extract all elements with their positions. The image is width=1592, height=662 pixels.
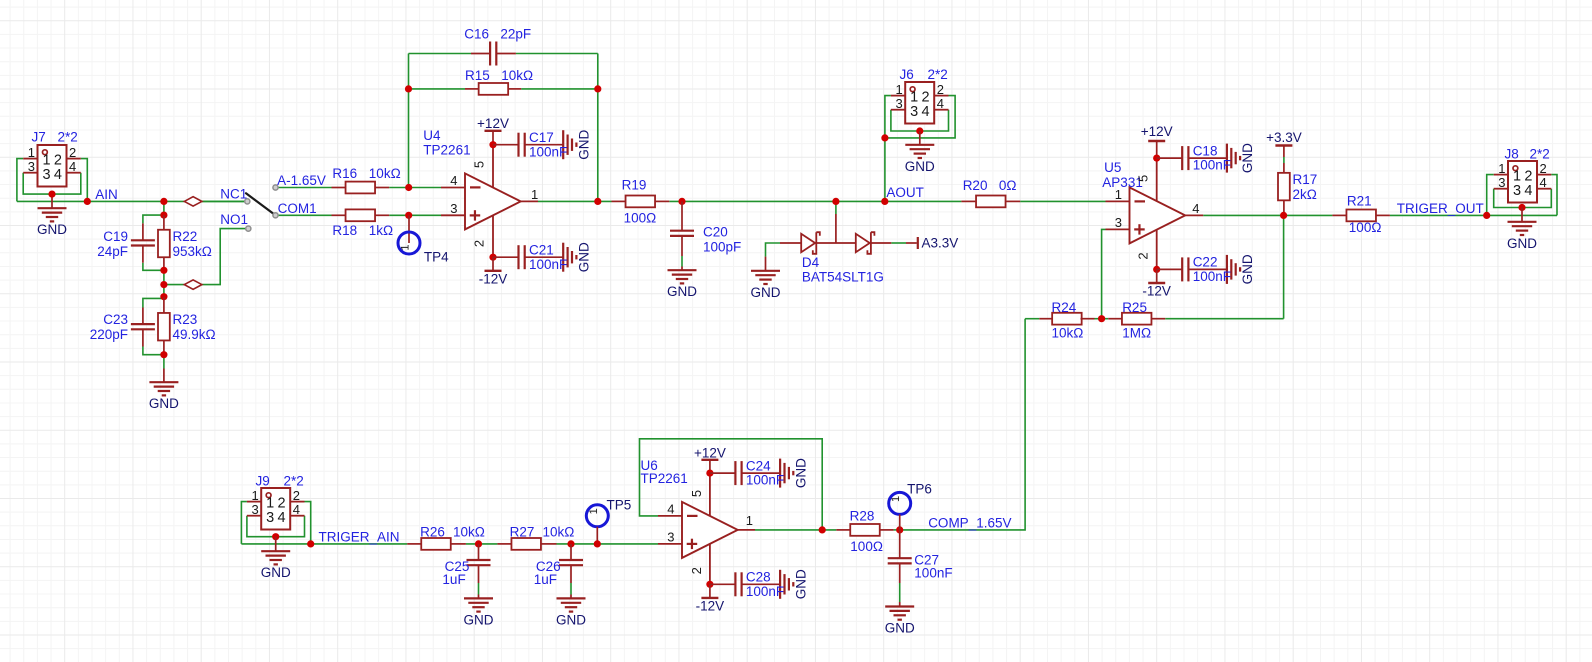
ground C20: [681, 267, 683, 271]
junction dot J6 gnd: [916, 127, 923, 134]
svg-text:R15: R15: [465, 68, 490, 83]
junction dot AIN at J7: [84, 198, 91, 205]
resistor R16: [332, 187, 346, 189]
svg-text:24pF: 24pF: [97, 244, 128, 259]
svg-text:4: 4: [450, 173, 457, 188]
wire R28 to COMP node: [894, 529, 900, 531]
pin end COM1: [273, 213, 278, 218]
junction dot R15 right: [594, 85, 601, 92]
svg-text:GND: GND: [793, 458, 808, 488]
svg-text:GND: GND: [667, 284, 697, 299]
op-amp U6: [682, 502, 738, 558]
svg-text:2*2: 2*2: [58, 130, 78, 145]
svg-text:4: 4: [1192, 201, 1199, 216]
resistor R28: [836, 529, 850, 531]
svg-text:100nF: 100nF: [746, 473, 784, 488]
svg-text:GND: GND: [577, 129, 592, 159]
net port diamond NC1 row: [184, 197, 202, 206]
connector J8: [1508, 161, 1537, 203]
svg-text:GND: GND: [793, 569, 808, 599]
junction dot J8 gnd: [1518, 204, 1525, 211]
svg-text:R22: R22: [173, 229, 198, 244]
resistor R27: [497, 543, 511, 545]
svg-text:C18: C18: [1193, 143, 1218, 158]
svg-text:4: 4: [293, 502, 300, 517]
wire feedback left vertical: [408, 54, 410, 188]
wire NO1 branch: [164, 284, 184, 286]
wire AIN net: [17, 200, 245, 202]
svg-text:3: 3: [28, 159, 35, 174]
svg-text:C23: C23: [103, 312, 128, 327]
svg-text:100nF: 100nF: [914, 565, 952, 580]
wire J6 to AOUT: [884, 138, 886, 202]
ground C26: [570, 595, 572, 599]
wire R18 to U4 pin3: [389, 214, 441, 216]
capacitor C19: [142, 223, 144, 240]
resistor R15: [465, 88, 479, 90]
svg-text:3: 3: [42, 167, 50, 183]
svg-text:GND: GND: [751, 285, 781, 300]
connector J7: [38, 145, 67, 187]
svg-text:3: 3: [895, 96, 902, 111]
svg-text:4: 4: [667, 502, 674, 517]
svg-text:1: 1: [1115, 187, 1122, 202]
svg-text:GND: GND: [261, 565, 291, 580]
ground D4: [765, 257, 767, 271]
junction dot NO1 row: [160, 281, 167, 288]
junction dot U4 out: [594, 198, 601, 205]
wire U6 output to R28: [755, 529, 836, 531]
svg-text:5: 5: [472, 161, 487, 168]
wire R24 row from long vertical: [1025, 318, 1039, 320]
capacitor C16: [471, 53, 490, 55]
svg-text:C21: C21: [529, 242, 554, 257]
wire C16 row: [409, 53, 472, 55]
junction dot R19-C20: [678, 198, 685, 205]
svg-text:2: 2: [69, 145, 76, 160]
svg-text:10kΩ: 10kΩ: [453, 524, 485, 539]
svg-text:COM1: COM1: [278, 201, 317, 216]
junction dot C23 top: [160, 293, 167, 300]
svg-text:+12V: +12V: [1141, 124, 1173, 139]
junction dot R16-U4: [405, 184, 412, 191]
switch lever NC1-COM1: [246, 193, 276, 215]
wire U5 out node down to R25 row: [1283, 215, 1285, 318]
svg-text:100pF: 100pF: [703, 240, 741, 255]
junction dot C19 bottom: [160, 267, 167, 274]
svg-text:2*2: 2*2: [928, 67, 948, 82]
wire R20 to U5 pin1: [1020, 200, 1105, 202]
power -12V U6: [709, 584, 711, 598]
svg-text:1: 1: [890, 496, 902, 502]
wire NC1 stub: [202, 200, 245, 202]
wire divider top segment: [163, 201, 165, 215]
power -12V U4: [492, 257, 494, 271]
svg-text:C19: C19: [103, 229, 128, 244]
ground C25: [478, 595, 480, 599]
svg-text:R17: R17: [1293, 172, 1318, 187]
resistor R19: [612, 200, 626, 202]
capacitor C18 decoupling: [1153, 155, 1160, 162]
svg-text:10kΩ: 10kΩ: [543, 524, 575, 539]
svg-text:GND: GND: [149, 396, 179, 411]
junction dot TRIGER_OUT: [1483, 212, 1490, 219]
wire A-1.65V row to R16: [278, 187, 331, 189]
svg-text:953kΩ: 953kΩ: [173, 244, 212, 259]
ground J6: [919, 131, 921, 145]
svg-text:1uF: 1uF: [534, 572, 557, 587]
svg-text:R25: R25: [1122, 300, 1147, 315]
svg-text:100nF: 100nF: [746, 584, 784, 599]
svg-text:TP6: TP6: [907, 481, 932, 496]
svg-text:J6: J6: [900, 67, 914, 82]
svg-text:100nF: 100nF: [529, 257, 567, 272]
svg-text:GND: GND: [577, 242, 592, 272]
svg-text:1: 1: [1498, 161, 1505, 176]
pin end NC1: [245, 199, 250, 204]
svg-text:1: 1: [588, 508, 600, 514]
svg-text:A3.3V: A3.3V: [922, 235, 959, 250]
junction dot AOUT tap: [832, 198, 839, 205]
svg-text:R26: R26: [420, 524, 445, 539]
svg-text:+12V: +12V: [694, 446, 726, 461]
svg-text:5: 5: [689, 490, 704, 497]
ground J8: [1521, 208, 1523, 222]
svg-text:1MΩ: 1MΩ: [1122, 326, 1151, 341]
capacitor C24 decoupling: [706, 470, 713, 477]
power -12V U5: [1156, 269, 1158, 283]
resistor R22: [163, 215, 165, 230]
diode D4 (dual schottky): [835, 214, 837, 243]
port A3.3V: [906, 242, 917, 244]
pin end NO1: [246, 226, 251, 231]
test point TP6: [889, 492, 911, 514]
wire feedback right vertical: [597, 54, 599, 202]
svg-text:R16: R16: [332, 166, 357, 181]
power +12V U5: [1148, 140, 1165, 142]
svg-text:J8: J8: [1505, 147, 1519, 162]
svg-text:D4: D4: [802, 255, 820, 270]
wire C19 parallel loop: [143, 215, 164, 223]
svg-text:100Ω: 100Ω: [1349, 220, 1382, 235]
wire R21 to J8 / TRIGER_OUT: [1390, 214, 1557, 216]
capacitor C20: [681, 201, 683, 230]
wire R23 bottom to GND: [163, 355, 165, 369]
wire J7 inner loop (pins 3-4 to GND): [23, 173, 81, 194]
wire J6 outer loop: [885, 96, 891, 138]
svg-text:TRIGER_OUT: TRIGER_OUT: [1397, 201, 1484, 216]
resistor R25: [1108, 318, 1122, 320]
wire U5 output to R21: [1203, 214, 1332, 216]
junction dot C19 top: [160, 212, 167, 219]
svg-text:AIN: AIN: [95, 187, 118, 202]
svg-text:GND: GND: [1507, 236, 1537, 251]
wire C20 lower lead: [681, 256, 683, 267]
junction dot TRIGER_AIN: [307, 540, 314, 547]
wire COM1 row to R18: [278, 214, 331, 216]
svg-text:2: 2: [1136, 252, 1151, 259]
resistor R21: [1332, 214, 1346, 216]
test point TP5: [586, 505, 608, 527]
svg-text:10kΩ: 10kΩ: [369, 166, 401, 181]
ground divider: [163, 369, 165, 383]
svg-text:GND: GND: [37, 222, 67, 237]
wire R16 to U4 pin4: [389, 187, 441, 189]
svg-text:R18: R18: [332, 223, 357, 238]
svg-text:COMP_1.65V: COMP_1.65V: [928, 516, 1011, 531]
svg-text:3: 3: [667, 530, 674, 545]
svg-text:2: 2: [293, 488, 300, 503]
svg-text:J9: J9: [256, 474, 270, 489]
wire J6 inner loop: [891, 110, 949, 131]
svg-text:4: 4: [278, 510, 286, 526]
junction dot R24-R25: [1098, 315, 1105, 322]
svg-text:22pF: 22pF: [500, 26, 531, 41]
svg-text:220pF: 220pF: [90, 327, 128, 342]
svg-text:R20: R20: [963, 178, 988, 193]
junction dot U6 out: [819, 526, 826, 533]
resistor R24: [1039, 318, 1053, 320]
capacitor C17 decoupling: [489, 141, 496, 148]
wire R27 to U6 pin3: [557, 543, 659, 545]
svg-text:1: 1: [895, 82, 902, 97]
svg-text:C16: C16: [464, 26, 489, 41]
svg-text:TP5: TP5: [607, 497, 632, 512]
wire TRIGER_AIN row: [241, 543, 407, 545]
wire C26 lower lead: [570, 583, 572, 595]
svg-text:4: 4: [937, 96, 944, 111]
svg-text:TP2261: TP2261: [641, 471, 688, 486]
wire J8 outer loop: [1487, 175, 1494, 216]
wire AOUT tap down to D4: [835, 201, 837, 214]
junction dot R27-C26: [567, 540, 574, 547]
capacitor C25: [478, 544, 480, 560]
svg-text:1: 1: [746, 513, 753, 528]
capacitor C21 decoupling: [489, 254, 496, 261]
svg-text:100nF: 100nF: [1193, 269, 1231, 284]
svg-text:2: 2: [937, 82, 944, 97]
wire J7 outer loop (pins 1-2 to AIN): [17, 159, 23, 202]
svg-text:10kΩ: 10kΩ: [501, 68, 533, 83]
svg-text:3: 3: [251, 502, 258, 517]
svg-text:C20: C20: [703, 225, 728, 240]
resistor R26: [407, 543, 421, 545]
svg-text:4: 4: [69, 159, 76, 174]
svg-text:100Ω: 100Ω: [624, 210, 657, 225]
power +12V U4: [485, 130, 502, 132]
svg-text:1kΩ: 1kΩ: [369, 223, 393, 238]
svg-text:5: 5: [1136, 175, 1151, 182]
wire U4 output to R19: [538, 200, 612, 202]
svg-text:0Ω: 0Ω: [999, 178, 1017, 193]
junction dot TP5: [594, 540, 601, 547]
svg-text:3: 3: [450, 201, 457, 216]
svg-text:-12V: -12V: [1142, 284, 1171, 299]
svg-text:C17: C17: [529, 130, 554, 145]
svg-text:A-1.65V: A-1.65V: [277, 173, 326, 188]
wire COMP_1.65V long vertical: [900, 319, 1025, 530]
wire U6 feedback loop: [640, 439, 823, 530]
svg-text:-12V: -12V: [479, 271, 508, 286]
capacitor C28 decoupling: [706, 581, 713, 588]
svg-text:TRIGER_AIN: TRIGER_AIN: [319, 530, 400, 545]
wire J9 outer loop: [241, 502, 247, 544]
wire R24-R25 middle node up to U5 pin3: [1102, 229, 1106, 318]
svg-text:C22: C22: [1193, 255, 1218, 270]
svg-text:R27: R27: [510, 524, 535, 539]
op-amp U5: [1130, 187, 1186, 243]
capacitor C27: [899, 530, 901, 558]
wire J9 inner loop: [247, 516, 305, 537]
test point TP4: [408, 215, 410, 243]
wire J8 inner loop: [1494, 189, 1552, 208]
svg-text:3: 3: [1115, 215, 1122, 230]
pin end A-1.65V: [273, 185, 278, 190]
wire R17 top gap: [1283, 157, 1285, 163]
ground J9: [275, 537, 277, 552]
svg-text:3: 3: [1513, 183, 1521, 199]
svg-text:GND: GND: [885, 621, 915, 636]
svg-text:2*2: 2*2: [1530, 147, 1550, 162]
wire R22 bottom to NO1 row: [163, 270, 165, 296]
svg-text:3: 3: [910, 104, 918, 120]
wire R19 to R20: [669, 200, 961, 202]
wire D4 to A3.3V port: [891, 242, 906, 244]
svg-text:C24: C24: [746, 458, 771, 473]
svg-text:-12V: -12V: [696, 599, 725, 614]
junction dot divider top: [160, 198, 167, 205]
capacitor C26: [570, 544, 572, 560]
svg-text:GND: GND: [1240, 143, 1255, 173]
resistor R20: [961, 200, 975, 202]
junction dot R18-U4: [405, 212, 412, 219]
wire C27 lower lead: [899, 583, 901, 602]
svg-text:R24: R24: [1052, 300, 1077, 315]
wire R25 to out node: [1165, 318, 1283, 320]
resistor R23: [163, 297, 165, 313]
svg-text:+12V: +12V: [477, 116, 509, 131]
svg-text:NC1: NC1: [220, 187, 247, 202]
connector J6: [905, 82, 934, 124]
svg-text:2*2: 2*2: [284, 474, 304, 489]
wire R26 to R27: [466, 543, 498, 545]
ground C27: [899, 602, 901, 607]
net port diamond NO1 row: [184, 280, 202, 289]
svg-text:J7: J7: [32, 130, 46, 145]
resistor R17: [1283, 146, 1285, 158]
wire R15 row: [409, 88, 466, 90]
ground J7: [51, 194, 53, 208]
junction dot R17 bottom: [1280, 212, 1287, 219]
svg-text:GND: GND: [1240, 254, 1255, 284]
junction dot R26-C25: [475, 540, 482, 547]
svg-text:100nF: 100nF: [1193, 158, 1231, 173]
wire C25 lower lead: [478, 583, 480, 595]
capacitor C22 decoupling: [1153, 266, 1160, 273]
svg-text:U4: U4: [423, 128, 441, 143]
svg-text:BAT54SLT1G: BAT54SLT1G: [802, 270, 884, 285]
svg-text:4: 4: [1524, 183, 1532, 199]
svg-text:100nF: 100nF: [529, 144, 567, 159]
svg-text:U5: U5: [1104, 160, 1121, 175]
junction dot J9 gnd: [272, 533, 279, 540]
svg-text:NO1: NO1: [220, 212, 248, 227]
svg-text:TP4: TP4: [424, 249, 449, 264]
svg-text:4: 4: [1540, 175, 1547, 190]
junction dot COMP node: [896, 526, 903, 533]
wire R24 to middle node: [1095, 318, 1109, 320]
svg-text:2: 2: [472, 240, 487, 247]
junction dot J6 outer: [881, 134, 888, 141]
svg-text:TP2261: TP2261: [423, 143, 470, 158]
capacitor C23: [142, 308, 144, 325]
svg-text:2kΩ: 2kΩ: [1293, 187, 1317, 202]
svg-text:3: 3: [266, 510, 274, 526]
svg-text:R28: R28: [850, 509, 875, 524]
junction dot R15 left: [405, 85, 412, 92]
wire C23 parallel loop: [143, 298, 164, 307]
svg-text:2: 2: [689, 567, 704, 574]
svg-text:1: 1: [251, 488, 258, 503]
svg-text:R23: R23: [173, 312, 198, 327]
svg-text:10kΩ: 10kΩ: [1052, 326, 1084, 341]
junction dot J7 inner: [48, 191, 55, 198]
svg-text:R21: R21: [1347, 194, 1372, 209]
svg-text:100Ω: 100Ω: [850, 539, 883, 554]
svg-text:GND: GND: [905, 159, 935, 174]
svg-text:2: 2: [1540, 161, 1547, 176]
svg-text:1uF: 1uF: [442, 572, 465, 587]
svg-text:+3.3V: +3.3V: [1266, 130, 1302, 145]
svg-text:C28: C28: [746, 570, 771, 585]
power +12V U6: [701, 459, 718, 461]
connector J9: [261, 488, 290, 530]
svg-text:4: 4: [54, 167, 62, 183]
junction dot AOUT at J6: [881, 198, 888, 205]
resistor R18: [332, 214, 346, 216]
svg-text:1: 1: [400, 244, 412, 250]
svg-text:GND: GND: [464, 612, 494, 627]
svg-text:3: 3: [1498, 175, 1505, 190]
wire D4 anode from GND: [766, 243, 781, 257]
svg-text:4: 4: [922, 104, 930, 120]
junction dot C23 bottom: [160, 351, 167, 358]
svg-text:1: 1: [531, 187, 538, 202]
svg-text:GND: GND: [556, 612, 586, 627]
svg-text:49.9kΩ: 49.9kΩ: [173, 327, 216, 342]
svg-text:1: 1: [28, 145, 35, 160]
svg-text:AOUT: AOUT: [886, 185, 924, 200]
op-amp U4: [465, 173, 521, 229]
svg-text:R19: R19: [622, 177, 647, 192]
